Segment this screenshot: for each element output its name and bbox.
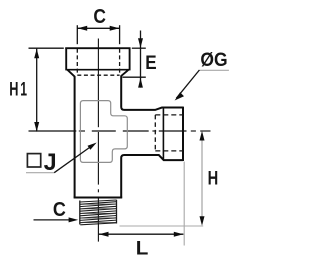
svg-text:E: E — [145, 53, 156, 74]
svg-text:H: H — [9, 79, 18, 100]
svg-text:ØG: ØG — [200, 50, 227, 71]
svg-text:1: 1 — [20, 79, 27, 100]
svg-text:J: J — [44, 149, 57, 176]
svg-text:L: L — [136, 238, 149, 259]
svg-text:H: H — [208, 168, 219, 189]
svg-text:C: C — [53, 199, 66, 221]
svg-text:C: C — [93, 6, 106, 28]
